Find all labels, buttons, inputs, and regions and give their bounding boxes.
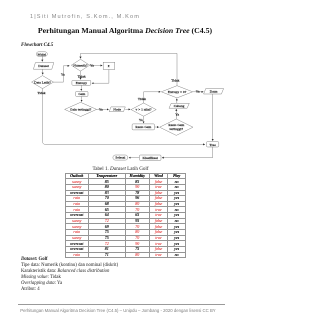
flowchart label (21, 43, 53, 48)
svg-text:Tidak: Tidak (78, 74, 86, 78)
terminator Tree (206, 142, 218, 147)
wire Klasifikasi to Selesai (129, 157, 139, 159)
wire Numerik Tidak to Entropy (80, 71, 82, 79)
svg-text:x̄: x̄ (108, 64, 110, 68)
wire Entropy0 Tidak loop to Numerik (81, 53, 178, 85)
svg-text:Tidak: Tidak (37, 91, 45, 95)
process Gain (76, 91, 88, 96)
svg-text:Ya: Ya (175, 112, 179, 116)
process Klasifikasi (139, 155, 161, 160)
svg-text:Gain: Gain (78, 92, 85, 96)
header author line (30, 14, 140, 20)
svg-text:Dataset: Dataset (38, 64, 49, 68)
svg-text:Rasio Gain: Rasio Gain (135, 125, 151, 129)
decision Rasio Gain tertinggi? (160, 119, 193, 135)
footer rule (18, 303, 225, 306)
svg-text:Ya: Ya (99, 107, 103, 111)
wire Daun to Tree (212, 94, 214, 141)
wire v1nilai Ya to Rasio Gain (143, 116, 145, 123)
wire Data Latih Ya to Numerik (54, 66, 70, 82)
io Dataset (33, 63, 53, 70)
svg-text:Klasifikasi: Klasifikasi (143, 156, 158, 160)
footer text (0, 308, 236, 313)
decision Gain tertinggi? (65, 102, 97, 116)
decision v > 1 nilai? (131, 103, 156, 116)
svg-text:Ya: Ya (139, 118, 143, 122)
terminator Mulai (36, 52, 47, 57)
wire Entropy0 Ya to Daun (193, 91, 204, 93)
svg-text:Cabang: Cabang (174, 104, 185, 108)
svg-text:Gain tertinggi?: Gain tertinggi? (70, 108, 92, 112)
wire Rasio Gain tertinggi Ya to Cabang (175, 109, 177, 119)
wire Dataset to Data Latih (42, 69, 44, 74)
svg-text:Entropy = 0?: Entropy = 0? (168, 90, 187, 94)
wire Entropy to Gain (80, 85, 82, 90)
wire Numerik Ya to xbar (90, 65, 103, 67)
svg-text:Node: Node (113, 107, 121, 111)
wire v1nilai Tidak to Entropy0 (144, 92, 161, 103)
decision Data Latih? (32, 76, 54, 89)
wire Node to v1nilai (125, 108, 130, 110)
process Rasio Gain (132, 124, 154, 130)
svg-text:Data Latih?: Data Latih? (34, 80, 51, 84)
decision Numerik? (71, 59, 89, 71)
svg-text:Numerik?: Numerik? (73, 63, 88, 67)
io Node (109, 107, 125, 112)
table caption (0, 166, 241, 172)
wire Gain tertinggi Ya to Node (97, 108, 109, 110)
dataset description block (21, 257, 118, 293)
terminator Selesai (113, 155, 128, 160)
decision Entropy = 0? (161, 86, 192, 98)
svg-text:tertinggi?: tertinggi? (170, 127, 184, 131)
svg-text:Daun: Daun (210, 90, 218, 94)
svg-text:Ya: Ya (61, 73, 65, 77)
svg-text:Ya: Ya (196, 90, 200, 94)
io Cabang (169, 103, 189, 108)
svg-text:Tree: Tree (209, 143, 216, 147)
svg-text:Mulai: Mulai (38, 52, 46, 56)
svg-text:Selesai: Selesai (115, 156, 125, 160)
svg-text:Ya: Ya (90, 63, 94, 67)
svg-text:v > 1 nilai?: v > 1 nilai? (136, 108, 153, 112)
wire Data Latih Tidak long loop to Tree (43, 89, 205, 145)
svg-text:Tidak: Tidak (171, 78, 179, 82)
io Daun (204, 89, 224, 95)
title (0, 26, 250, 35)
svg-text:Entropy: Entropy (76, 81, 88, 85)
wire Gain to Gain tertinggi (81, 96, 83, 101)
wire Tree to Klasifikasi (162, 147, 213, 158)
svg-text:Tidak: Tidak (138, 97, 146, 101)
wire Rasio Gain to Rasio Gain tertinggi (155, 126, 159, 128)
wire xbar to Entropy (92, 69, 109, 83)
table golf dataset (65, 173, 187, 259)
process Entropy (72, 80, 91, 85)
process xbar (103, 62, 115, 69)
wire Mulai to Dataset (41, 56, 43, 61)
wire Cabang to Entropy0 (176, 99, 178, 104)
